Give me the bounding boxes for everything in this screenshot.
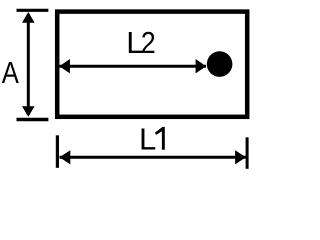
dimension L1 right witness line [246,137,249,169]
dimension A bottom arrowhead [22,106,35,117]
dimension A bottom tick [17,118,49,121]
dimension A top arrowhead [22,12,35,23]
dimension A line [27,14,30,115]
dimension L1 line [60,156,246,159]
svg-text:A: A [2,55,19,90]
hole dot [207,51,233,77]
dimension L1 right arrowhead [235,150,246,164]
dimension L2 line [59,65,206,68]
dimension L2 left arrowhead [59,59,70,73]
svg-text:2: 2 [141,25,156,60]
dimension L2 right arrowhead [196,59,207,73]
dimension A top tick [17,9,49,12]
dimension L1 left arrowhead [60,150,71,164]
svg-text:L: L [139,122,156,157]
rectangle outline [57,12,247,117]
dimension L1 left witness line [56,135,59,168]
